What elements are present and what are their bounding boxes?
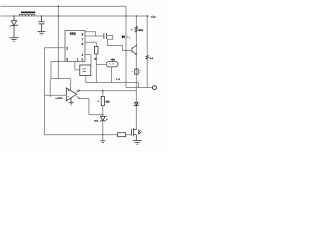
wire pin6 stub <box>85 42 96 46</box>
svg-text:4: 4 <box>106 118 108 121</box>
ground stub below rail <box>100 141 105 143</box>
transistor Q1 marks <box>132 45 136 54</box>
svg-text:8: 8 <box>82 33 84 37</box>
node junction dot Q1 collector <box>136 45 137 46</box>
ground under Q2 <box>133 141 142 145</box>
resistor R5 <box>102 91 104 97</box>
svg-text:7: 7 <box>129 36 131 39</box>
capacitor C3 box under IC <box>80 65 91 76</box>
wire rail B x=136.3 <box>135 16 137 130</box>
wire after C2 <box>107 36 132 51</box>
svg-text:2: 2 <box>66 46 68 50</box>
wire R5 to D3 <box>102 106 104 117</box>
wire pin5 stub <box>85 55 91 66</box>
wire upper branch y=7 <box>1 5 127 7</box>
wire rail D x=147.6 <box>146 16 148 88</box>
resistor R8 box on rail B <box>135 69 139 74</box>
node junction dot A1 <box>58 15 60 17</box>
wire bus1 y=82.6 <box>86 83 139 88</box>
svg-text:6: 6 <box>82 42 84 46</box>
terminal circle <box>152 86 156 90</box>
wire pin3 run <box>51 62 71 90</box>
svg-text:555: 555 <box>70 32 76 36</box>
svg-text:4.7k: 4.7k <box>116 78 121 81</box>
ground under C1 <box>38 32 46 36</box>
wire op-amp lower output <box>79 98 103 114</box>
svg-text:1N4: 1N4 <box>94 119 99 122</box>
resistor R6 box <box>118 133 126 137</box>
wire op-amp output bus y=90.7 <box>77 90 137 92</box>
node junction dot riser top <box>58 5 60 7</box>
zener diode D4 on rail A <box>122 35 125 38</box>
svg-text:7: 7 <box>82 37 84 41</box>
node junction dot bottom rail <box>102 134 104 136</box>
wire pin1 to C3 <box>75 62 80 70</box>
svg-text:LM386: LM386 <box>56 97 64 100</box>
wire pin2 run <box>45 48 66 135</box>
wire left drop secondary <box>49 79 51 97</box>
node junction dot rail A main <box>125 15 127 17</box>
inductor L1 <box>19 14 35 16</box>
resistor R2 box <box>95 46 98 54</box>
svg-text:1k: 1k <box>94 57 97 60</box>
wire terminal line y=87.6 <box>126 87 152 89</box>
wire riser x=58.3 <box>57 6 59 78</box>
node junction dot D1 top <box>13 15 15 17</box>
svg-text:2: 2 <box>98 100 100 103</box>
op-amp plus minus marks <box>68 90 70 97</box>
resistor R10 squiggle on rail D <box>146 55 149 59</box>
svg-text:5: 5 <box>82 57 84 61</box>
op-amp U3 triangle <box>66 88 76 101</box>
svg-text:4.2: 4.2 <box>150 57 154 60</box>
wire buzzer drop <box>111 67 113 83</box>
wire main +9V rail y=16 <box>1 15 150 17</box>
node junction dot feedback <box>102 114 103 115</box>
ground under D1 <box>10 38 19 42</box>
svg-text:91k: 91k <box>106 101 111 104</box>
ground under op-amp <box>69 98 74 106</box>
svg-text:3: 3 <box>66 57 68 61</box>
wire rail A x=126 <box>125 6 127 87</box>
wire pin8 stub <box>85 32 96 36</box>
wire D3 down <box>102 121 104 140</box>
node junction dot chain top <box>102 90 104 92</box>
svg-text:1: 1 <box>77 57 79 61</box>
resistor R7 zigzag <box>135 26 138 32</box>
svg-text:+9v: +9v <box>110 58 115 61</box>
zener diode D1 <box>10 16 18 38</box>
wire bottom rail <box>45 134 118 136</box>
op-amp output arrows <box>77 90 80 93</box>
node junction dot A2 <box>58 61 59 62</box>
wire into buzzer <box>96 64 106 66</box>
svg-text:91k: 91k <box>139 29 144 32</box>
node junction dot rail B main <box>136 15 138 17</box>
wire C3 drop <box>85 76 87 83</box>
wire pin7 line <box>85 35 103 37</box>
capacitor C1 <box>38 16 44 31</box>
wire R2 bottom drop <box>95 54 97 83</box>
zener diode D5 on rail B <box>133 102 140 106</box>
diode D3 <box>100 116 106 121</box>
IC U1 555 timer box <box>65 31 85 62</box>
buzzer BZ1 oval <box>106 62 118 67</box>
svg-text:+9v: +9v <box>150 15 156 19</box>
wire R6 to Q2 gate <box>126 134 132 136</box>
capacitor C2 plates <box>104 33 107 39</box>
node junction dot rail A tap <box>125 50 127 52</box>
transistor Q2 <box>131 128 141 140</box>
node junction dot rail D main <box>146 15 148 17</box>
svg-text:2: 2 <box>131 28 133 31</box>
wire inverting input <box>45 94 67 96</box>
node junction dot C1 top <box>41 15 43 17</box>
